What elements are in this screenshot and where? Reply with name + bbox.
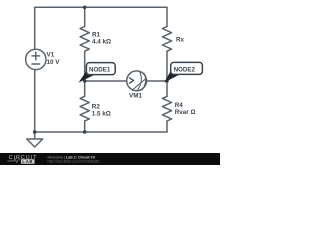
wire left branch top: [34, 7, 36, 49]
junction node B: [165, 79, 169, 83]
svg-text:10 V: 10 V: [47, 59, 61, 66]
watermark text: [48, 156, 100, 164]
resistor Rx: [162, 27, 171, 52]
wire right between Rx and node: [166, 51, 168, 81]
svg-text:NODE1: NODE1: [89, 67, 111, 74]
wire voltmeter right: [146, 80, 167, 82]
label V1: [47, 31, 196, 117]
svg-text:NODE2: NODE2: [174, 66, 196, 73]
svg-text:LAB: LAB: [22, 159, 33, 164]
svg-text:http://circuitlab.com/c/429x8q: http://circuitlab.com/c/429x8q65: [48, 160, 100, 164]
junction dot left bottom: [33, 130, 37, 134]
junction node A: [83, 79, 87, 83]
resistor R4: [162, 96, 171, 121]
svg-text:VM1: VM1: [129, 93, 142, 100]
resistor R1: [80, 27, 89, 52]
wire top rail: [35, 6, 167, 8]
wire middle between R1 and node: [84, 51, 86, 81]
svg-text:4.4 kΩ: 4.4 kΩ: [92, 39, 111, 46]
voltmeter VM1: [127, 71, 147, 91]
wire voltmeter left: [85, 80, 127, 82]
logo CIRCUIT LAB: [8, 155, 38, 164]
wire bottom rail: [35, 131, 167, 133]
resistor R2: [80, 96, 89, 121]
svg-text:R1: R1: [92, 31, 101, 38]
node tag NODE2: [166, 62, 203, 81]
ground: [27, 132, 43, 147]
wire left branch bottom: [34, 70, 36, 132]
voltmeter VM1 plus mark: [129, 78, 133, 83]
junction dot top: [83, 6, 87, 10]
watermark bar: [0, 153, 220, 165]
svg-text:Rvar Ω: Rvar Ω: [175, 109, 196, 116]
svg-text:1.5 kΩ: 1.5 kΩ: [92, 110, 111, 117]
wire middle bottom lead: [84, 121, 86, 132]
svg-text:V1: V1: [47, 52, 55, 59]
wire right top lead: [166, 7, 168, 26]
wire right bottom lead: [166, 121, 168, 132]
node tag NODE1: [80, 63, 115, 82]
svg-text:R4: R4: [175, 102, 184, 109]
voltage source V1: [26, 49, 46, 69]
wire middle top lead: [84, 7, 86, 26]
wire right node to R4: [166, 81, 168, 96]
wire middle node to R2: [84, 81, 86, 96]
junction dot middle bottom: [83, 130, 87, 134]
svg-text:Rx: Rx: [176, 37, 185, 44]
